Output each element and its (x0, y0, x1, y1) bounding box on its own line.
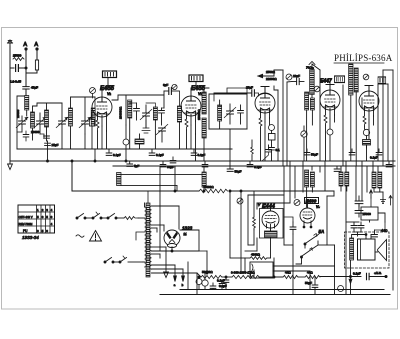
svg-text:0.1µF: 0.1µF (254, 165, 262, 169)
circled comp (123, 139, 129, 145)
cap (202, 161, 208, 167)
svg-text:0.1µF: 0.1µF (353, 272, 361, 276)
antenna A1 (23, 42, 27, 68)
wire V1 plate top to bandpass (112, 95, 126, 100)
label box E499 (305, 198, 319, 204)
cap right group (304, 149, 318, 157)
cap (191, 149, 205, 157)
wire x341 (340, 166, 342, 172)
wire x254 to grid resistor (253, 191, 255, 217)
coil osc a (218, 105, 222, 121)
wire: HT bus y166 (113, 165, 395, 167)
wire (298, 276, 305, 278)
primary winding bumps (145, 207, 147, 267)
coil left of V2 (177, 106, 181, 122)
code box above V2 (189, 75, 203, 82)
variable capacitor VC1 (16, 116, 28, 132)
arrow terminal far right (389, 196, 392, 206)
wire V6 area to bottom bus (256, 238, 258, 251)
wire: tank bottom rail y149 (17, 148, 232, 150)
trimmer cap osc (224, 104, 236, 124)
node x175 on AVC line (174, 190, 176, 192)
wire drops to ground bus (47, 149, 49, 161)
svg-text:PU: PU (23, 229, 28, 233)
grid cap wire (191, 82, 196, 97)
wire from arrow to V3 plate area (274, 70, 281, 76)
plate wire up (264, 87, 266, 94)
switch row 1 (76, 212, 124, 219)
cap under box (269, 145, 280, 161)
grid resistor vertical left (253, 217, 256, 230)
cathode squiggle V2 (185, 119, 188, 130)
svg-text:E444: E444 (262, 204, 275, 210)
wire: AVC line y191 (72, 161, 199, 191)
svg-text:0.1µF: 0.1µF (156, 153, 164, 157)
coil pair A (305, 170, 309, 187)
svg-text:A: A (23, 42, 27, 48)
V2 legs (187, 115, 196, 125)
wires below speaker (350, 260, 352, 295)
wire: bottom bus y298 (160, 294, 390, 296)
second trimmer (156, 124, 168, 142)
svg-text:100000Ω: 100000Ω (119, 106, 123, 119)
verticals around V4 (319, 70, 321, 161)
loop bottom (209, 128, 247, 130)
AC tilde symbol (76, 235, 84, 237)
wire top joining (37, 103, 62, 106)
tube V6 (262, 211, 279, 228)
svg-text:25000: 25000 (363, 212, 372, 216)
cathode resistor squiggle V1 (96, 120, 99, 131)
tube V1 E455 (92, 97, 112, 117)
resistor 4000ohm (250, 257, 267, 260)
V3 shading top (258, 94, 272, 97)
wire x356 (355, 166, 357, 200)
vertical resistor + diag cap right of loop (251, 147, 254, 156)
V5 legs (365, 110, 374, 120)
hatched box under V6 (265, 231, 278, 238)
end arrow down (320, 276, 361, 278)
coil IF1b (153, 107, 157, 120)
coil L4 (69, 108, 73, 126)
secondary winding bumps (150, 206, 152, 225)
coil L3 (45, 110, 49, 127)
anode feed wires (178, 206, 180, 229)
wire choke top to osc coil (121, 173, 204, 175)
cap diag lead (262, 145, 271, 161)
wire: ground bus y161 (10, 160, 395, 162)
svg-text:1.3·0.45: 1.3·0.45 (10, 80, 21, 84)
left circled comp (196, 279, 202, 285)
variable capacitor VC4 (79, 97, 91, 134)
wire x295 (294, 166, 296, 198)
coil pair B (339, 172, 343, 186)
variable capacitor VC3 (56, 103, 68, 149)
V3 legs (261, 112, 270, 122)
earth terminal E (7, 40, 12, 48)
ground under transformer (165, 247, 167, 272)
svg-text:50µF: 50µF (167, 165, 174, 169)
caps at bottom (210, 283, 216, 290)
svg-text:44Ω: 44Ω (307, 271, 313, 275)
circled comp on bus (202, 280, 208, 286)
wire x303 (302, 161, 304, 192)
cap (170, 157, 176, 163)
bottom wires (248, 244, 254, 246)
fuse squiggle to transformer (124, 217, 139, 220)
cone (378, 240, 387, 261)
MAIN BUS LINES (10, 149, 395, 295)
wire x334 (333, 191, 335, 196)
cap 50uF right (305, 277, 318, 295)
cap (149, 149, 164, 157)
resistor Rd (305, 275, 320, 278)
svg-text:20000: 20000 (31, 130, 40, 134)
tube V5 (359, 91, 379, 111)
choke coil (117, 173, 122, 186)
circled comp on bus (338, 286, 344, 292)
capacitor small (23, 131, 29, 141)
core hatched bar (146, 203, 150, 277)
voltage select arrows a b (174, 265, 177, 287)
wire choke bottom (121, 185, 177, 187)
svg-text:REV-760M: REV-760M (19, 222, 33, 226)
circled comp (363, 74, 369, 80)
svg-text:0.1µF: 0.1µF (219, 284, 227, 288)
coil L1 (25, 96, 29, 111)
svg-text:50µF: 50µF (305, 281, 312, 285)
resistor Ra (201, 275, 222, 278)
V4 legs (326, 109, 335, 119)
variable capacitor VC2 (34, 113, 46, 134)
svg-text:V₅: V₅ (316, 205, 320, 209)
cap pair lower (355, 205, 363, 217)
wires around switch (304, 244, 306, 248)
svg-text:5µF: 5µF (134, 164, 139, 168)
svg-text:4.5Ω: 4.5Ω (381, 229, 388, 233)
capacitor in loop bottom (45, 143, 59, 147)
tube V2 E455 (181, 96, 201, 116)
resistor Rc (283, 275, 298, 278)
svg-text:25000Ω: 25000Ω (197, 109, 201, 120)
switch row 2 (104, 256, 143, 263)
wire x284 (283, 166, 285, 245)
verticals to chain (273, 258, 275, 277)
secondary taps (152, 205, 180, 207)
wires left of box (247, 195, 249, 245)
code box right (378, 77, 386, 84)
cap 50uF below bus (227, 166, 241, 174)
rotary switch levers (306, 236, 317, 244)
ground arrow bottom left (8, 161, 13, 170)
block rect (361, 207, 378, 220)
primary terminals (144, 203, 146, 207)
grid cap bar (261, 87, 269, 94)
svg-text:3·300·2300·170Ω: 3·300·2300·170Ω (231, 271, 255, 275)
svg-text:25000: 25000 (16, 109, 20, 118)
right side verticals (334, 245, 336, 295)
wires from choke to right (273, 265, 335, 267)
caps below (351, 222, 357, 232)
V1 legs (98, 116, 107, 131)
circled comp under V5 (363, 129, 369, 135)
coil pair C (372, 172, 376, 188)
wire core top to AVC line (147, 191, 149, 203)
circled comp (286, 74, 292, 80)
coupling wire V2 plate to V3 grid (214, 92, 251, 94)
junction dots on AVC line (229, 190, 231, 192)
wire (259, 276, 283, 278)
IF coil pair left of V4 (305, 92, 309, 110)
arrow pointing left 2500ohm (258, 75, 274, 77)
svg-text:50µF: 50µF (311, 153, 318, 157)
wire x320 (319, 166, 321, 172)
wire: HT rail x346 (345, 161, 347, 295)
wire x362 (361, 161, 363, 200)
svg-text:40000Ω: 40000Ω (203, 185, 214, 189)
cathode squiggle V5 (363, 116, 366, 126)
coupling capacitor (252, 90, 255, 96)
wire x378 (377, 166, 379, 172)
trim cap small (44, 136, 50, 138)
svg-text:50µF: 50µF (235, 170, 242, 174)
svg-text:V₁: V₁ (107, 91, 112, 96)
wires down right (196, 273, 198, 295)
chain wire start (197, 273, 201, 277)
cap (247, 161, 262, 169)
cap (160, 161, 174, 169)
wire: tank top rail (17, 96, 26, 110)
wire x373 (372, 161, 374, 172)
tall coil pair left (202, 92, 206, 114)
svg-text:A: A (34, 42, 38, 48)
ground stub under trimmer (143, 120, 149, 128)
wire x312 (311, 166, 313, 170)
wire: HT feed x160 (159, 166, 161, 251)
svg-text:0.1µF: 0.1µF (113, 153, 121, 157)
svg-text:PHİLİPS-636A: PHİLİPS-636A (334, 53, 393, 63)
cap pair top (355, 196, 363, 207)
osc coil lower winding (202, 172, 206, 187)
antenna A2 (34, 42, 38, 60)
svg-text:6µF: 6µF (163, 83, 168, 87)
cap 0.1uF (106, 149, 121, 157)
wire from left rail to cap (10, 67, 14, 69)
pins with dots (303, 226, 305, 228)
top connections (352, 235, 366, 240)
wire x383 (382, 192, 384, 203)
capacitor 45pF series vertical (23, 85, 38, 96)
voice coil line (375, 251, 378, 253)
arrow up (370, 190, 373, 198)
svg-text:70Ω⋅₃: 70Ω⋅₃ (306, 66, 315, 70)
grid cap bar V4 (326, 85, 334, 91)
osc loop rect (209, 94, 247, 129)
wires V1 legs to rails (97, 131, 99, 149)
cathode squiggle V3 (259, 118, 262, 128)
wire: bottom bus y290 (180, 289, 384, 291)
cap right of box (284, 217, 296, 234)
circled comp below AVC (237, 198, 243, 204)
capacitor 6uF (163, 83, 171, 94)
output cap (353, 272, 369, 280)
warning triangle (90, 231, 102, 242)
wires tank block bottom (84, 134, 86, 149)
resistor Rb (232, 275, 259, 278)
coil L2 hatched (31, 112, 35, 128)
svg-text:0.1µF: 0.1µF (198, 153, 206, 157)
tank loop left (16, 110, 18, 149)
circled trimmer left of V1 (90, 88, 96, 99)
wire right to 6uF cap (164, 90, 168, 92)
tube V4 (320, 90, 340, 110)
node: antenna junction (25, 67, 27, 69)
node (71, 160, 73, 162)
grid cap bar V5 (365, 86, 373, 92)
rectifier bulb (164, 230, 180, 246)
trimmer cap with arrow (140, 105, 152, 128)
svg-text:10µF: 10µF (293, 74, 300, 78)
wire (40, 134, 44, 138)
svg-text:4000Ω: 4000Ω (251, 253, 261, 257)
coil L5 (91, 108, 95, 126)
wires around L2 (33, 106, 38, 112)
loop rect top (126, 94, 164, 96)
box under V5 (363, 140, 371, 146)
svg-text:½: ½ (184, 233, 187, 237)
box around V6 (260, 209, 284, 239)
wire V4 plate top (329, 85, 331, 91)
capacitor near top (292, 74, 304, 85)
resistor 25000ohm horizontal top (13, 58, 24, 61)
wire x290 (289, 161, 291, 203)
code box above V1 (103, 71, 117, 78)
svg-text:45µF: 45µF (31, 85, 38, 89)
wire x325 (324, 161, 326, 191)
wire VC1 bottom (17, 131, 22, 133)
svg-text:0.1µF: 0.1µF (370, 156, 378, 160)
wire x367 (366, 166, 368, 192)
svg-text:E499: E499 (306, 198, 317, 203)
circled comp near V4 grid (314, 86, 320, 92)
circled comp left lower (301, 131, 307, 137)
long 40000 ohm resistor on AVC line (199, 189, 228, 193)
verticals right of V3 (277, 90, 279, 161)
grid cap wire to tube (102, 78, 108, 98)
wire A junction down (25, 68, 27, 86)
output choke loop (250, 262, 273, 278)
hatched small box (padder) (135, 139, 144, 144)
capacitor C-ant series (16, 65, 19, 72)
verticals right side (361, 98, 363, 108)
cap osc b (238, 105, 244, 124)
cathode squiggle V4 (324, 115, 327, 125)
cap right of coil (159, 108, 165, 125)
small box component under V1 left (90, 119, 95, 126)
svg-text:1933-34: 1933-34 (22, 235, 39, 240)
tube V3 (255, 93, 275, 113)
wire x175 (174, 166, 176, 191)
coupling wire top (227, 88, 247, 94)
TITLE (334, 53, 393, 63)
circled screw adjuster (172, 84, 177, 89)
circled comp (294, 200, 300, 206)
wire (26, 110, 28, 116)
cap 5uF (127, 161, 139, 168)
wire: left vertical from earth to ground bus (9, 46, 11, 161)
ground (triple bar) right (380, 200, 385, 204)
cap in filter (130, 103, 140, 120)
svg-text:25000: 25000 (13, 54, 22, 58)
svg-text:22000Ω: 22000Ω (266, 77, 277, 81)
square box under V3 (269, 134, 276, 141)
magnet block (358, 239, 376, 260)
svg-text:44Ω: 44Ω (285, 271, 291, 275)
wires (346, 221, 359, 223)
field coil winding (350, 238, 354, 260)
primary tap (136, 232, 145, 240)
coil IF1a hatched (128, 100, 132, 118)
circled comp under V3 (269, 125, 275, 131)
svg-text:OFF-440 V: OFF-440 V (19, 215, 33, 219)
tube V7 (300, 208, 315, 223)
resistor vertical on A2 lead (35, 60, 38, 70)
code box above V4 (335, 76, 345, 83)
wire (222, 276, 232, 278)
svg-text:+H.S.: +H.S. (374, 271, 382, 275)
svg-text:25µF: 25µF (52, 143, 59, 147)
